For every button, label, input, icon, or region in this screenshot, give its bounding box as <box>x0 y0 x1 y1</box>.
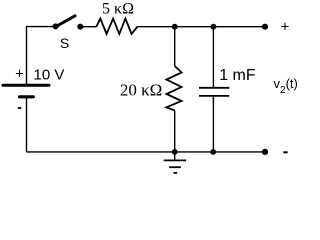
ground <box>164 152 186 173</box>
wire R1 to top-right terminal <box>137 26 265 28</box>
wire bottom lead of R2 <box>174 111 176 153</box>
node junction top at C1 <box>211 24 217 30</box>
svg-text:20 κΩ: 20 κΩ <box>120 80 162 99</box>
resistor R1 5 kOhm <box>96 1 137 34</box>
wire bottom lead of C1 <box>212 96 214 152</box>
node terminal top right <box>262 24 268 30</box>
svg-text:10 V: 10 V <box>34 67 65 84</box>
wire battery minus down to bottom rail <box>26 97 28 152</box>
svg-text:+: + <box>15 66 24 83</box>
capacitor C1 1 mF <box>199 67 256 96</box>
wire left vertical + top-left corner to switch <box>27 27 54 85</box>
node junction bottom at R2/ground <box>172 149 178 155</box>
node junction bottom at C1 <box>210 149 216 155</box>
battery V1 10 V <box>3 66 64 108</box>
node label - (bottom right terminal) <box>283 151 287 153</box>
svg-text:+: + <box>281 19 290 36</box>
node label v2(t) output voltage <box>274 76 298 96</box>
node junction top at R2 <box>172 24 178 30</box>
resistor R2 20 kOhm <box>120 66 182 111</box>
wire top lead of C1 <box>212 27 214 87</box>
svg-text:1 mF: 1 mF <box>219 67 256 84</box>
wire switch to resistor R1 <box>83 26 97 28</box>
wire bottom rail <box>27 151 266 153</box>
switch S <box>53 16 84 51</box>
svg-text:v2(t): v2(t) <box>274 76 298 96</box>
node terminal bottom right <box>262 149 268 155</box>
wire top lead of R2 <box>174 27 176 66</box>
svg-text:S: S <box>60 35 69 51</box>
svg-text:5 κΩ: 5 κΩ <box>102 1 134 18</box>
